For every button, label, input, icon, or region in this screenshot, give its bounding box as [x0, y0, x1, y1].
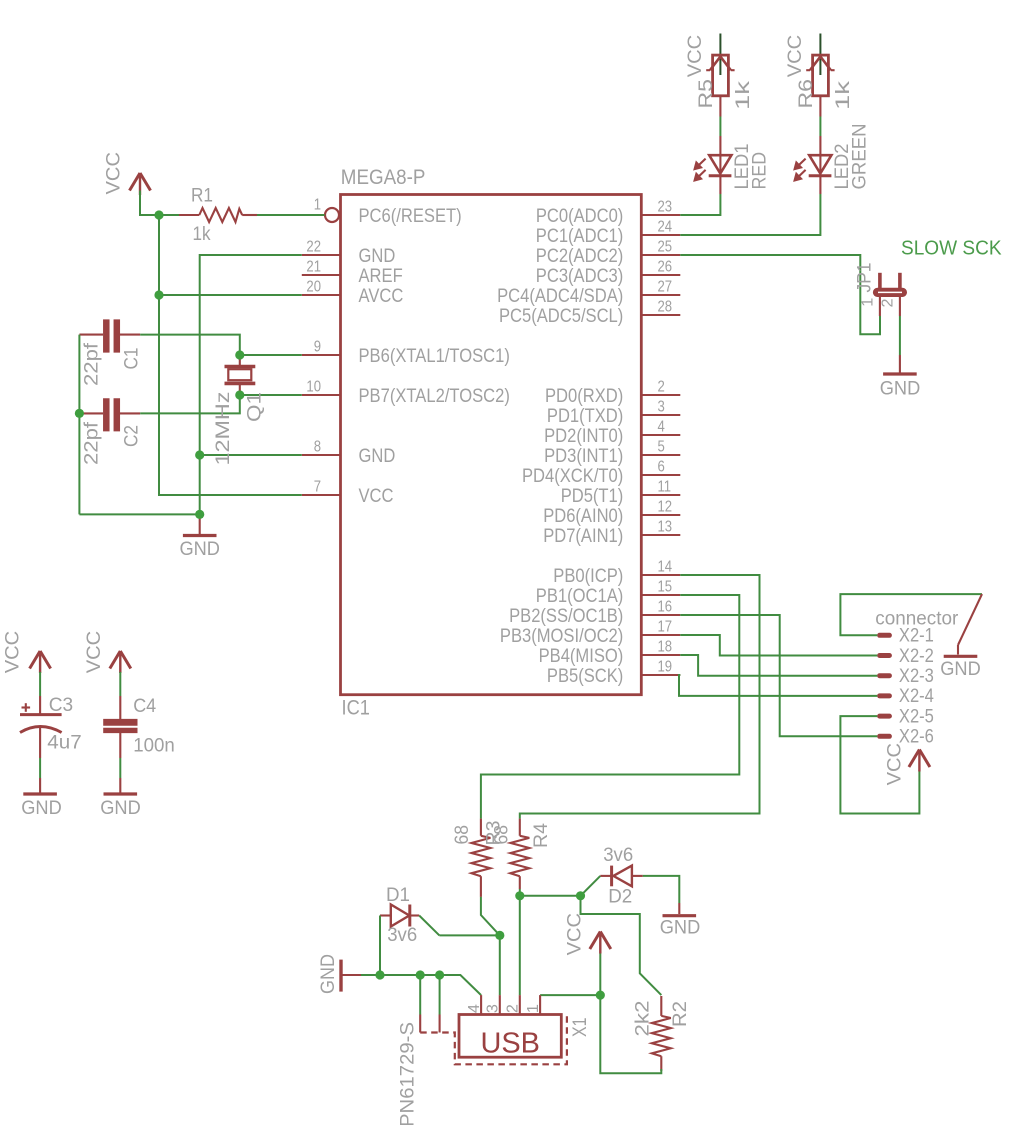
svg-text:C2: C2 — [121, 425, 143, 447]
svg-text:R2: R2 — [669, 1001, 691, 1027]
svg-text:2: 2 — [505, 1004, 522, 1013]
svg-text:PB1(OC1A): PB1(OC1A) — [536, 585, 624, 607]
svg-text:PD3(INT1): PD3(INT1) — [544, 445, 623, 467]
svg-text:21: 21 — [306, 259, 321, 276]
svg-text:28: 28 — [658, 299, 673, 316]
svg-text:VCC: VCC — [83, 631, 105, 674]
svg-text:PC2(ADC2): PC2(ADC2) — [536, 245, 624, 267]
svg-text:SLOW SCK: SLOW SCK — [901, 238, 1002, 260]
svg-text:connector: connector — [875, 608, 958, 630]
svg-text:10: 10 — [306, 379, 321, 396]
svg-text:22pf: 22pf — [81, 342, 103, 386]
svg-text:20: 20 — [306, 279, 321, 296]
svg-text:12: 12 — [658, 499, 673, 516]
svg-text:GND: GND — [317, 954, 339, 994]
svg-text:PD4(XCK/T0): PD4(XCK/T0) — [522, 465, 623, 487]
svg-text:RED: RED — [749, 152, 771, 190]
svg-text:AREF: AREF — [359, 265, 403, 287]
svg-text:PC4(ADC4/SDA): PC4(ADC4/SDA) — [497, 285, 623, 307]
svg-text:PC6(/RESET): PC6(/RESET) — [359, 205, 462, 227]
svg-text:1k: 1k — [732, 81, 754, 110]
svg-text:19: 19 — [658, 659, 673, 676]
svg-text:GND: GND — [21, 797, 62, 819]
svg-text:1: 1 — [314, 197, 321, 214]
svg-text:27: 27 — [658, 279, 673, 296]
svg-text:X2-3: X2-3 — [899, 665, 934, 687]
svg-text:R6: R6 — [795, 79, 817, 109]
svg-text:GND: GND — [359, 445, 396, 467]
svg-text:17: 17 — [658, 619, 673, 636]
svg-text:PB3(MOSI/OC2): PB3(MOSI/OC2) — [500, 625, 623, 647]
svg-text:68: 68 — [451, 825, 473, 845]
svg-text:R4: R4 — [530, 823, 552, 848]
svg-text:2: 2 — [879, 299, 896, 308]
svg-text:PB7(XTAL2/TOSC2): PB7(XTAL2/TOSC2) — [359, 385, 510, 407]
svg-text:VCC: VCC — [784, 35, 806, 78]
svg-text:PD6(AIN0): PD6(AIN0) — [543, 505, 623, 527]
svg-text:PD7(AIN1): PD7(AIN1) — [543, 525, 623, 547]
svg-text:R5: R5 — [695, 79, 717, 109]
svg-text:PN61729-S: PN61729-S — [397, 1022, 419, 1125]
svg-text:C3: C3 — [49, 694, 73, 716]
svg-text:2k2: 2k2 — [632, 1001, 654, 1037]
svg-text:IC1: IC1 — [342, 696, 370, 720]
svg-text:C4: C4 — [133, 695, 156, 717]
svg-text:PB2(SS/OC1B): PB2(SS/OC1B) — [509, 605, 623, 627]
svg-text:USB: USB — [480, 1028, 540, 1060]
svg-text:5: 5 — [658, 439, 665, 456]
svg-text:PB0(ICP): PB0(ICP) — [553, 565, 623, 587]
svg-text:PC5(ADC5/SCL): PC5(ADC5/SCL) — [499, 305, 623, 327]
svg-text:22: 22 — [306, 239, 321, 256]
svg-text:1k: 1k — [832, 81, 854, 110]
svg-text:1k: 1k — [193, 223, 211, 245]
svg-text:GND: GND — [100, 797, 141, 819]
svg-text:JP1: JP1 — [853, 263, 875, 293]
svg-text:D1: D1 — [386, 884, 410, 906]
svg-text:7: 7 — [314, 479, 321, 496]
svg-text:X2-2: X2-2 — [899, 645, 934, 667]
svg-text:VCC: VCC — [359, 485, 394, 507]
svg-text:GREEN: GREEN — [849, 124, 871, 190]
svg-text:R1: R1 — [191, 185, 213, 207]
svg-text:VCC: VCC — [564, 913, 586, 956]
svg-text:2: 2 — [658, 379, 665, 396]
svg-text:1: 1 — [525, 1004, 542, 1013]
svg-text:GND: GND — [880, 378, 921, 400]
svg-text:VCC: VCC — [884, 743, 906, 786]
svg-text:16: 16 — [658, 599, 673, 616]
svg-text:AVCC: AVCC — [359, 285, 404, 307]
svg-text:11: 11 — [658, 479, 672, 496]
svg-text:15: 15 — [658, 579, 673, 596]
svg-text:VCC: VCC — [2, 631, 24, 674]
svg-text:PB5(SCK): PB5(SCK) — [547, 665, 623, 687]
svg-text:68: 68 — [491, 825, 513, 845]
svg-text:C1: C1 — [121, 348, 143, 370]
svg-text:3v6: 3v6 — [387, 924, 417, 946]
svg-text:4: 4 — [466, 1004, 483, 1013]
svg-text:4: 4 — [658, 419, 666, 436]
svg-text:PC3(ADC3): PC3(ADC3) — [536, 265, 624, 287]
svg-text:8: 8 — [314, 439, 321, 456]
svg-text:Q1: Q1 — [244, 392, 266, 422]
svg-text:GND: GND — [940, 658, 981, 680]
svg-text:9: 9 — [314, 339, 321, 356]
svg-text:X2-4: X2-4 — [899, 685, 934, 707]
svg-text:4u7: 4u7 — [47, 732, 81, 754]
svg-text:3v6: 3v6 — [603, 844, 633, 866]
svg-text:100n: 100n — [133, 735, 175, 757]
svg-text:PC0(ADC0): PC0(ADC0) — [536, 205, 623, 227]
svg-text:PB6(XTAL1/TOSC1): PB6(XTAL1/TOSC1) — [359, 345, 510, 367]
svg-text:18: 18 — [658, 639, 673, 656]
svg-text:X1: X1 — [569, 1018, 591, 1038]
svg-text:PD5(T1): PD5(T1) — [561, 485, 624, 507]
svg-text:6: 6 — [658, 459, 665, 476]
svg-text:14: 14 — [658, 559, 673, 576]
svg-text:X2-5: X2-5 — [899, 705, 934, 727]
svg-text:VCC: VCC — [103, 152, 125, 195]
svg-text:VCC: VCC — [684, 35, 706, 78]
svg-text:3: 3 — [485, 1004, 502, 1013]
svg-text:12MHz: 12MHz — [212, 392, 234, 466]
svg-text:PC1(ADC1): PC1(ADC1) — [536, 225, 624, 247]
svg-text:26: 26 — [658, 259, 673, 276]
svg-text:GND: GND — [359, 245, 396, 267]
svg-text:3: 3 — [658, 399, 665, 416]
svg-text:PB4(MISO): PB4(MISO) — [539, 645, 624, 667]
svg-text:25: 25 — [658, 239, 673, 256]
svg-text:23: 23 — [658, 199, 673, 216]
svg-text:GND: GND — [660, 917, 701, 939]
svg-text:PD2(INT0): PD2(INT0) — [544, 425, 623, 447]
svg-text:MEGA8-P: MEGA8-P — [341, 165, 426, 189]
svg-text:22pf: 22pf — [81, 421, 103, 465]
svg-text:PD1(TXD): PD1(TXD) — [547, 405, 623, 427]
svg-text:24: 24 — [658, 219, 673, 236]
svg-text:PD0(RXD): PD0(RXD) — [545, 385, 623, 407]
svg-text:1: 1 — [859, 298, 876, 307]
svg-text:13: 13 — [658, 519, 673, 536]
svg-text:D2: D2 — [608, 886, 632, 908]
svg-text:GND: GND — [179, 538, 220, 560]
